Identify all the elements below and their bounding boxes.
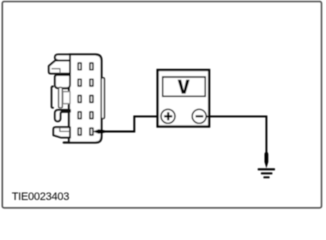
probe arrow at pin — [93, 129, 107, 133]
latch hook (upper J) — [55, 75, 70, 88]
voltmeter V1 — [158, 70, 210, 127]
connector C1 (multi-pin connector, face view) — [49, 54, 105, 142]
middle clip window — [63, 92, 70, 104]
minus sign — [196, 115, 204, 117]
latch tongue (top left) — [55, 54, 70, 60]
pin holes grid (2 cols x 5 rows) — [78, 63, 93, 135]
middle clip outer wall — [52, 86, 54, 107]
plus terminal — [161, 109, 175, 123]
ground probe tip — [265, 152, 268, 167]
connector right flange — [101, 78, 104, 119]
wire: probed pin to voltmeter plus terminal — [98, 116, 161, 131]
plus sign — [164, 112, 172, 120]
middle clip tab — [59, 87, 63, 108]
meter display — [163, 77, 206, 96]
latch wedge (upper left) — [49, 61, 70, 74]
ground symbol — [258, 168, 275, 178]
meter body — [158, 70, 210, 127]
latch wedge inner step (lower) — [60, 127, 70, 131]
svg-text:TIE0023403: TIE0023403 — [12, 191, 70, 203]
minus terminal — [192, 109, 206, 123]
connector bottom lip — [64, 142, 69, 144]
V display label — [178, 80, 190, 94]
latch hook (lower U) — [55, 110, 70, 121]
connector body shell — [69, 54, 102, 142]
latch wedge inner step — [52, 69, 61, 74]
wire: voltmeter minus terminal to ground — [206, 116, 266, 154]
latch wedge (lower left) — [53, 127, 70, 137]
